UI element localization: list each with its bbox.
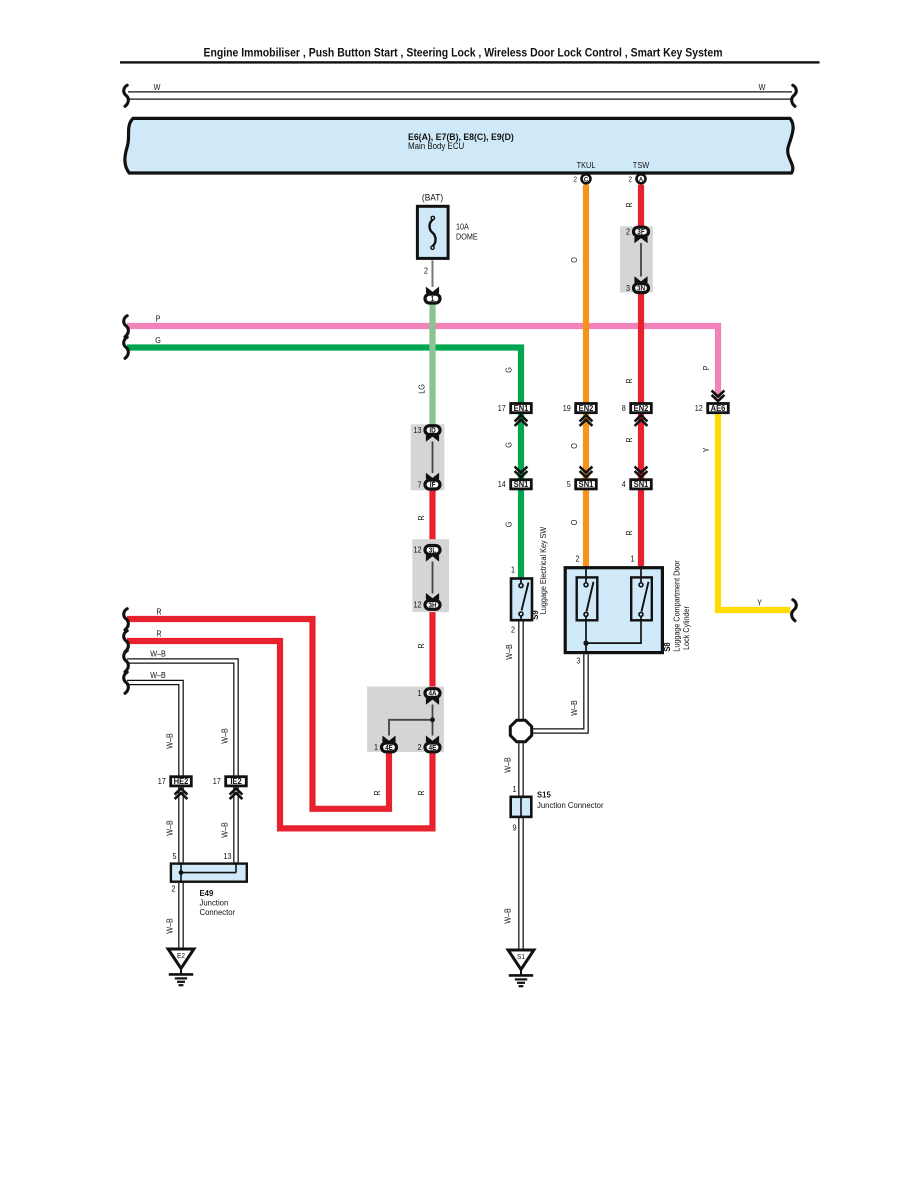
connector 3N pin 3 [634, 284, 649, 293]
mating chevrons below HE2 [175, 788, 188, 799]
wire P (pink) from left brace to AE6 [127, 326, 718, 398]
svg-text:10A: 10A [456, 222, 470, 232]
svg-text:2: 2 [511, 625, 515, 635]
wire Y from AE6 to right brace [718, 414, 791, 611]
arrow up to ID [426, 430, 439, 442]
svg-text:R: R [156, 629, 162, 639]
svg-text:12: 12 [413, 545, 421, 555]
svg-text:Luggage Electrical Key SW: Luggage Electrical Key SW [539, 526, 549, 614]
svg-text:4E: 4E [429, 744, 437, 751]
svg-text:HE2: HE2 [174, 777, 189, 786]
svg-text:SN1: SN1 [514, 480, 529, 489]
connector block 3L/3H [412, 539, 449, 612]
svg-text:Luggage Compartment Door: Luggage Compartment Door [672, 560, 682, 652]
svg-text:G: G [155, 336, 161, 346]
svg-text:Junction Connector: Junction Connector [537, 801, 604, 810]
arrow up to 3L [426, 550, 439, 562]
wire W-B from S9 pin 2 to junction [518, 622, 524, 732]
svg-text:4A: 4A [428, 690, 436, 697]
mating chevrons below IE2 [230, 788, 243, 799]
connector 4E pin 2 [425, 743, 440, 752]
svg-text:(BAT): (BAT) [422, 192, 443, 202]
wire R from left brace to 4E pin 1 [127, 619, 389, 809]
svg-text:EN2: EN2 [579, 404, 594, 413]
svg-text:R: R [625, 530, 635, 536]
svg-text:R: R [625, 437, 635, 443]
connector IF pin 7 [425, 480, 440, 489]
svg-text:R: R [156, 607, 162, 617]
junction connector E49 [171, 862, 247, 883]
connector AE6 pin 12 [708, 404, 729, 414]
wire G left continuation brace [124, 337, 129, 358]
svg-text:1: 1 [431, 296, 435, 303]
svg-text:S8: S8 [663, 642, 672, 652]
arrow down to 4E pin 2 [426, 736, 439, 748]
svg-text:R: R [417, 643, 427, 649]
connector ID pin 13 [425, 426, 440, 435]
connector block 3F/3N [620, 226, 653, 292]
arrow into connector 1 [426, 287, 439, 299]
svg-text:17: 17 [498, 403, 506, 413]
connector 4E pin 1 [382, 743, 397, 752]
wire W-B from E49 pin 2 to ground E2 [178, 883, 184, 949]
mating chevrons below EN1 [515, 415, 528, 426]
wire LG from fuse to ID [429, 304, 435, 430]
svg-text:S15: S15 [537, 790, 551, 799]
arrow down to 4E pin 1 [382, 736, 395, 748]
svg-text:DOME: DOME [456, 232, 478, 242]
svg-text:W–B: W–B [503, 757, 513, 773]
svg-text:LG: LG [417, 384, 427, 394]
arrow down to 3H [426, 593, 439, 605]
connector 4A pin 1 [425, 689, 440, 698]
arrow down to 3N [634, 276, 647, 288]
svg-text:2: 2 [171, 884, 175, 894]
wire W-B from left brace via IE2 to E49 pin 13 [127, 661, 236, 862]
fuse output lead [432, 260, 434, 287]
svg-text:E2: E2 [177, 953, 185, 960]
svg-text:Junction: Junction [200, 898, 229, 907]
svg-text:P: P [156, 314, 161, 324]
ECU E6/E7/E8/E9 Main Body ECU box [125, 118, 793, 173]
wire P left continuation brace [124, 316, 129, 337]
mating chevrons above SN1 pin5 [580, 467, 593, 478]
ground E2 [168, 949, 194, 985]
svg-text:4E: 4E [385, 744, 393, 751]
svg-text:W–B: W–B [165, 733, 175, 749]
arrow up to 4A [426, 693, 439, 705]
wire W-B lower left continuation brace [124, 672, 129, 693]
svg-text:R: R [625, 378, 635, 384]
svg-text:Connector: Connector [200, 908, 236, 917]
mating chevrons above SN1 pin4 [635, 467, 648, 478]
svg-text:R: R [417, 515, 427, 521]
svg-text:O: O [570, 520, 580, 526]
ECU pin 2 (A) TSW [628, 174, 645, 183]
svg-text:EN1: EN1 [514, 404, 529, 413]
connector 1 below fuse [425, 294, 440, 303]
svg-text:5: 5 [172, 851, 176, 861]
svg-text:EN2: EN2 [634, 404, 649, 413]
svg-text:C: C [584, 176, 589, 183]
wire O from TKUL pin to S8 [583, 185, 589, 566]
connector SN1 pin 5 [576, 480, 597, 490]
wire W (top bus, white) [128, 91, 792, 99]
svg-text:G: G [504, 367, 514, 373]
svg-text:12: 12 [695, 403, 703, 413]
svg-text:8: 8 [622, 403, 626, 413]
mating chevrons above SN1 pin14 [515, 467, 528, 478]
svg-text:R: R [417, 790, 427, 796]
svg-text:1: 1 [511, 565, 515, 575]
switch S8 Luggage Compartment Door Lock Cylinder [565, 566, 662, 654]
svg-text:4: 4 [622, 480, 627, 490]
connector SN1 pin 14 [511, 480, 532, 490]
svg-text:3: 3 [576, 656, 580, 666]
svg-text:O: O [570, 443, 580, 449]
wire R from left brace to 4E pin 2 [127, 641, 433, 828]
svg-text:SN1: SN1 [634, 480, 649, 489]
wire R from TSW pin to S8 [638, 185, 644, 566]
svg-text:W–B: W–B [165, 820, 175, 836]
svg-text:W–B: W–B [570, 700, 580, 716]
wire W-B from S8 pin 3 to junction [521, 654, 586, 731]
svg-text:O: O [570, 257, 580, 263]
svg-text:17: 17 [158, 777, 166, 787]
wire W-B from junction via S15 to ground S1 [518, 731, 524, 950]
arrow up to 3F [634, 232, 647, 244]
svg-text:AE6: AE6 [711, 404, 726, 413]
svg-text:TKUL: TKUL [577, 160, 596, 169]
svg-text:13: 13 [413, 425, 421, 435]
svg-text:2: 2 [417, 743, 421, 753]
svg-text:W–B: W–B [220, 728, 230, 744]
connector HE2 pin 17 [171, 777, 192, 787]
svg-text:R: R [625, 202, 635, 208]
connector 3L pin 12 [425, 546, 440, 555]
connector 3H pin 12 [425, 601, 440, 610]
svg-text:12: 12 [413, 600, 421, 610]
svg-text:Main Body ECU: Main Body ECU [408, 141, 464, 152]
svg-text:W–B: W–B [150, 671, 166, 681]
svg-text:ID: ID [429, 427, 435, 434]
mating chevrons below EN2 pin8 [635, 415, 648, 426]
svg-text:E49: E49 [200, 889, 214, 898]
svg-text:Y: Y [702, 448, 712, 453]
svg-text:2: 2 [573, 176, 577, 183]
wire W-B from left brace via HE2 to E49 pin 5 [127, 683, 181, 863]
svg-text:G: G [504, 442, 514, 448]
mating chevrons below EN2 pin19 [580, 415, 593, 426]
connector block ID/IF [411, 424, 445, 490]
svg-text:R: R [373, 790, 383, 796]
svg-text:3N: 3N [637, 285, 645, 292]
svg-text:3F: 3F [637, 229, 644, 236]
svg-text:SN1: SN1 [579, 480, 594, 489]
fuse 10A DOME [417, 206, 448, 258]
connector SN1 pin 4 [631, 480, 652, 490]
junction dot inside 4A block [430, 717, 435, 722]
svg-text:9: 9 [512, 823, 516, 833]
svg-text:14: 14 [498, 480, 507, 490]
svg-text:P: P [702, 366, 712, 371]
svg-text:2: 2 [424, 266, 428, 276]
title underline rule [120, 61, 820, 63]
svg-text:W–B: W–B [503, 908, 513, 924]
wire W-B upper left continuation brace [124, 651, 129, 672]
svg-text:2: 2 [628, 176, 632, 183]
wire G (green) from left brace to S9 [127, 348, 521, 578]
svg-text:5: 5 [567, 480, 571, 490]
svg-text:S1: S1 [517, 954, 525, 961]
svg-text:Engine Immobiliser , Push Butt: Engine Immobiliser , Push Button Start ,… [204, 46, 723, 60]
connector EN2 pin 8 [631, 404, 652, 414]
connector 3F pin 2 [634, 227, 649, 236]
svg-text:1: 1 [512, 785, 516, 795]
wire Y right continuation brace [792, 600, 797, 621]
svg-text:W–B: W–B [165, 918, 175, 934]
svg-text:G: G [504, 522, 514, 528]
svg-text:17: 17 [213, 777, 221, 787]
arrow down to IF [426, 473, 439, 485]
connector IE2 pin 17 [226, 777, 247, 787]
svg-text:7: 7 [417, 480, 421, 490]
junction octagon [510, 720, 531, 741]
svg-text:13: 13 [223, 851, 231, 861]
wire W right continuation brace [792, 85, 797, 106]
svg-text:Lock Cylinder: Lock Cylinder [681, 606, 691, 650]
svg-text:2: 2 [626, 227, 630, 237]
wire W left continuation brace [124, 85, 129, 106]
svg-text:IF: IF [430, 482, 436, 489]
connector EN1 pin 17 [511, 404, 532, 414]
svg-text:W: W [759, 83, 766, 93]
connector EN2 pin 19 [576, 404, 597, 414]
svg-text:TSW: TSW [633, 160, 650, 169]
wire R upper left continuation brace [124, 609, 129, 630]
junction connector S15 [511, 796, 532, 819]
ECU pin 2 (C) TKUL [573, 174, 590, 183]
svg-text:2: 2 [575, 554, 579, 564]
connector block 4A/4E [367, 687, 444, 753]
svg-text:1: 1 [417, 688, 421, 698]
svg-text:W–B: W–B [505, 644, 515, 660]
svg-text:W–B: W–B [150, 649, 166, 659]
svg-text:W: W [154, 83, 161, 93]
svg-text:3H: 3H [428, 602, 436, 609]
switch S9 Luggage Electrical Key SW [511, 577, 532, 621]
svg-text:W–B: W–B [220, 822, 230, 838]
svg-text:1: 1 [374, 743, 378, 753]
svg-text:A: A [639, 176, 644, 183]
ground S1 [508, 950, 534, 986]
wire R lower left continuation brace [124, 631, 129, 652]
svg-text:3: 3 [626, 283, 630, 293]
svg-text:19: 19 [563, 403, 571, 413]
svg-text:1: 1 [630, 554, 634, 564]
svg-text:Y: Y [757, 598, 762, 608]
svg-text:3L: 3L [429, 547, 436, 554]
mating chevrons above AE6 [712, 390, 725, 401]
wire R from IF to 4A [429, 485, 435, 694]
svg-text:IE2: IE2 [230, 777, 242, 786]
